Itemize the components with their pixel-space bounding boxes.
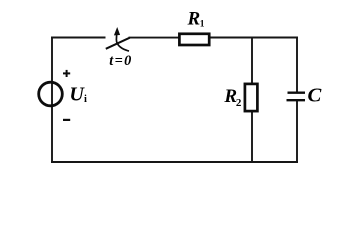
resistor R2 body [245,84,258,111]
voltage source U_i circle [39,82,63,106]
svg-text:t=0: t=0 [109,53,131,69]
label - polarity [63,119,70,121]
wire: right vertical above capacitor [296,37,298,92]
wire: left vertical branch [51,38,53,163]
wire: R2 top lead [251,37,253,84]
wire: switch to R1 segment [129,37,180,39]
svg-text:R: R [187,9,201,30]
label R1 [187,9,205,30]
label t=0 [109,53,131,69]
svg-text:U: U [69,84,85,106]
wire: R2 bottom lead [251,111,253,162]
wire: top-left segment from source to switch [51,37,106,39]
svg-text:i: i [84,94,87,105]
wire: R1 to right corner segment [210,37,298,39]
svg-text:C: C [308,86,323,107]
wire: right vertical below capacitor [296,101,298,163]
wire: bottom horizontal [51,161,298,163]
resistor R1 body [179,34,209,45]
label R2 [223,86,242,109]
svg-text:2: 2 [236,97,242,109]
capacitor C top plate [288,92,306,94]
switch S blade (t=0) [106,38,130,49]
label C [308,86,323,107]
svg-text:1: 1 [200,19,205,29]
capacitor C bottom plate [287,99,306,101]
switch closing arrow [114,27,129,51]
label U_i [69,84,87,106]
label + polarity [63,70,70,77]
